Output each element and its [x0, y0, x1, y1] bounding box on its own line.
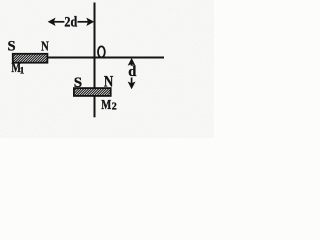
svg-text:N: N: [104, 74, 113, 91]
svg-text:M: M: [101, 98, 111, 113]
svg-text:S: S: [8, 39, 16, 55]
svg-text:d: d: [128, 64, 136, 80]
svg-text:S: S: [74, 75, 82, 91]
svg-text:N: N: [41, 40, 49, 55]
svg-text:2d: 2d: [64, 15, 77, 31]
svg-text:2: 2: [112, 102, 117, 113]
svg-text:1: 1: [20, 65, 25, 75]
